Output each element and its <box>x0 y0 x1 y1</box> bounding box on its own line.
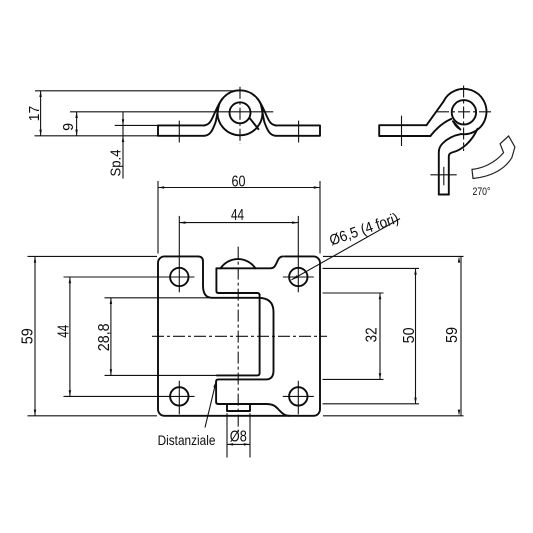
svg-text:Sp.4: Sp.4 <box>109 150 125 177</box>
svg-text:Ø8: Ø8 <box>230 428 247 445</box>
svg-text:44: 44 <box>55 325 72 338</box>
svg-text:Distanziale: Distanziale <box>158 432 216 448</box>
svg-text:270°: 270° <box>473 186 491 198</box>
svg-text:50: 50 <box>401 327 418 343</box>
svg-text:59: 59 <box>20 328 37 344</box>
svg-text:17: 17 <box>27 106 43 121</box>
svg-text:59: 59 <box>444 327 461 343</box>
svg-text:32: 32 <box>363 327 380 342</box>
svg-text:60: 60 <box>232 174 246 191</box>
svg-text:44: 44 <box>231 207 244 224</box>
svg-text:9: 9 <box>61 123 77 131</box>
svg-text:28,8: 28,8 <box>96 323 113 351</box>
